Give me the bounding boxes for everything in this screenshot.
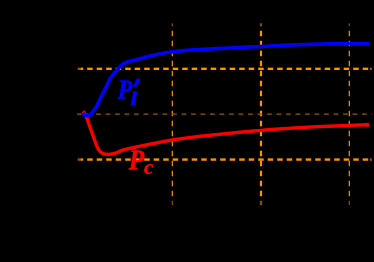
blue curve Pl' bbox=[83, 44, 369, 116]
prime mark of P'l bbox=[134, 79, 140, 87]
svg-text:c: c bbox=[144, 155, 154, 179]
dim start of y=160 line bbox=[77, 158, 80, 161]
svg-text:l: l bbox=[130, 88, 138, 110]
gridline horizontal y=114 (dark) bbox=[77, 113, 372, 115]
horizontal line y=160 right dim dash bbox=[370, 158, 372, 160]
gridline vertical x=172 bbox=[171, 23, 173, 26]
gridline vertical x=349 bbox=[348, 23, 350, 26]
svg-text:P: P bbox=[128, 144, 145, 176]
red curve Pc bbox=[83, 111, 369, 154]
red curve end tick bbox=[366, 123, 369, 127]
gridline vertical x=261 bbox=[260, 23, 262, 26]
gridline horizontal y=69 bbox=[78, 68, 372, 70]
dim start of y=69 line bbox=[77, 67, 80, 70]
horizontal line y=69 right dim dash bbox=[370, 68, 372, 70]
gridline horizontal y=160 bbox=[78, 158, 372, 160]
